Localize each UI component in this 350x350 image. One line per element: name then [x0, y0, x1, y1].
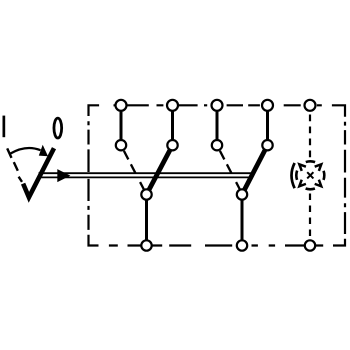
enclosure right border [344, 122, 346, 234]
contact 1 to terminal wire [145, 195, 148, 246]
lamp L1 ray arrow NE [315, 164, 322, 171]
fixed contact C1 [141, 189, 151, 199]
terminal T5 [305, 100, 316, 111]
terminal B2 [237, 240, 247, 250]
fixed contact C2 [237, 189, 247, 199]
actuator bar arrowhead [57, 169, 70, 182]
movable contact M1 [116, 140, 126, 150]
movable contact M2 [167, 140, 177, 150]
lamp L1 ray arrow NW [299, 164, 306, 171]
lever (solid, position 0) [23, 148, 54, 197]
lamp L1 filament cross [307, 172, 313, 178]
enclosure bottom-left corner [89, 235, 99, 246]
travel arc arrowhead [39, 145, 48, 157]
enclosure bottom border [109, 244, 323, 246]
pole 2 blade (solid) [147, 145, 173, 194]
lamp L1 ray arrow SW [299, 180, 306, 187]
terminal T3 [212, 100, 223, 111]
pole 1 stub wire [120, 105, 123, 145]
enclosure bottom-right corner [333, 239, 345, 246]
enclosure top-left corner [89, 105, 100, 116]
travel arc [11, 148, 41, 154]
lamp L1 dashed circle [296, 161, 324, 189]
terminal T1 [116, 100, 127, 111]
label I (position I) [3, 116, 6, 138]
actuator bar (double line) [39, 173, 252, 177]
pole 3 blade (dashed, position I) [220, 151, 240, 190]
terminal B1 [141, 240, 151, 250]
lamp circuit wire (dashed, upper) [309, 115, 311, 158]
terminal T2 [167, 100, 178, 111]
label 0 (position 0) [54, 118, 62, 138]
pole 4 blade (solid) [242, 145, 268, 194]
movable contact M4 [262, 140, 272, 150]
enclosure top-right corner [332, 105, 345, 116]
pole 2 stub wire [171, 105, 174, 145]
lamp L1 ray arrow SE [315, 180, 322, 187]
terminal T4 [262, 100, 273, 111]
movable contact M3 [212, 140, 222, 150]
contact 2 to terminal wire [241, 195, 244, 246]
pole 1 blade (dashed, position I) [124, 151, 144, 190]
lamp circuit wire (dashed, lower) [309, 194, 311, 242]
pole 4 stub wire [266, 105, 269, 145]
enclosure left border [87, 121, 89, 230]
lever (dashed, position I) [7, 148, 22, 182]
lamp L1 left paren [292, 163, 295, 188]
pole 3 stub wire [216, 105, 219, 145]
terminal B3 [305, 240, 315, 250]
enclosure top border [114, 104, 322, 106]
